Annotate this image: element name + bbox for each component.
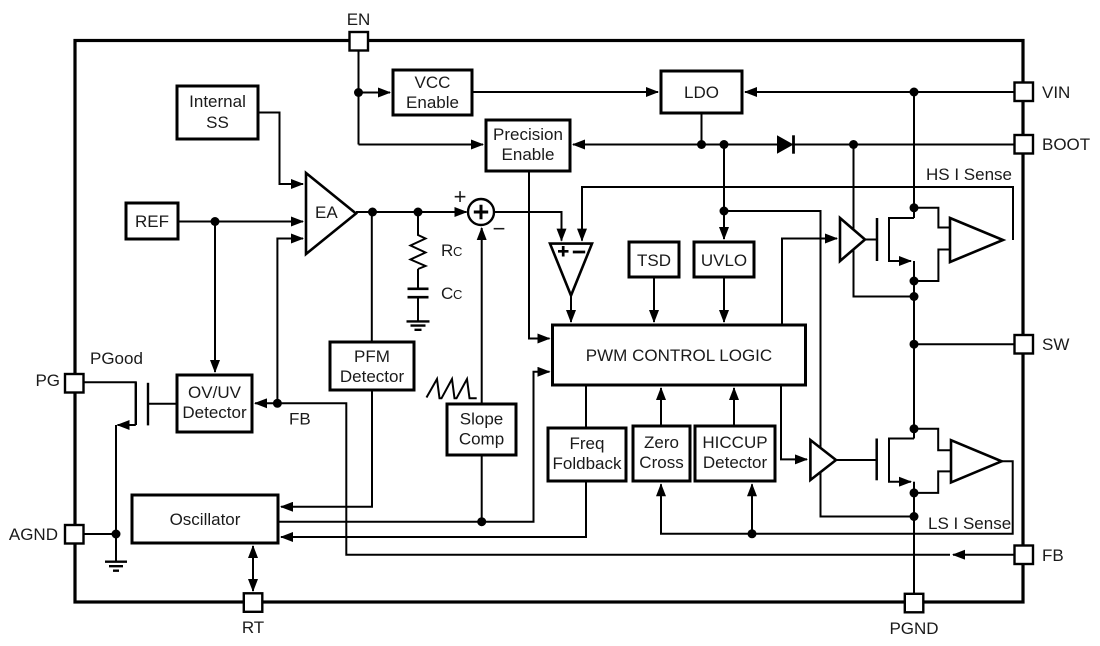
op-amp EA error amplifier	[306, 173, 356, 254]
svg-text:VIN: VIN	[1042, 83, 1070, 102]
wire HS I Sense feedback to PWM comparator minus input	[582, 187, 1013, 241]
wire PWM control logic to low-side gate driver	[781, 385, 807, 459]
block Freq Foldback	[548, 428, 626, 481]
PGood transistor gate bar	[147, 383, 149, 426]
pin EN	[347, 10, 371, 51]
pin RT	[242, 593, 264, 637]
svg-text:Zero: Zero	[644, 433, 679, 452]
wire VIN rail down the power path	[913, 92, 915, 218]
wire EN vertical from EN pin	[358, 41, 360, 145]
wire PFM Detector to oscillator	[281, 390, 372, 507]
svg-text:HS I Sense: HS I Sense	[926, 165, 1012, 184]
IC boundary	[75, 41, 1023, 603]
wire PWM control logic to Freq Foldback	[585, 385, 587, 428]
wire REF branch down to OV/UV Detector	[214, 222, 216, 373]
wire TSD to PWM control logic	[653, 277, 655, 322]
transistor LS MOSFET gate bar	[875, 439, 878, 481]
wire HS sense amp plus lead	[914, 208, 950, 228]
svg-text:Cross: Cross	[639, 453, 683, 472]
svg-text:Detector: Detector	[703, 453, 768, 472]
svg-text:PWM CONTROL LOGIC: PWM CONTROL LOGIC	[586, 346, 772, 365]
svg-text:OV/UV: OV/UV	[188, 383, 242, 402]
svg-text:Comp: Comp	[459, 430, 504, 449]
wire REF to EA input	[178, 221, 303, 223]
wire LS sense amp minus lead	[914, 471, 951, 493]
block PFM Detector	[330, 342, 414, 390]
wire EA output down to PFM Detector	[371, 212, 373, 342]
wire LS sense amp plus lead	[914, 429, 951, 450]
wire FB pin to FB net arrow	[953, 554, 1014, 556]
block Internal SS	[177, 86, 258, 139]
junction BOOT line join at SW node	[910, 292, 919, 301]
wire slope comp bottom to oscillator rail	[481, 455, 483, 522]
svg-text:Internal: Internal	[189, 92, 246, 111]
junction AGND	[112, 530, 121, 539]
wire PGood transistor source down to AGND	[115, 425, 117, 534]
junction FB at OV/UV	[273, 399, 282, 408]
junction LS source sense node	[910, 488, 919, 497]
svg-text:VCC: VCC	[415, 73, 451, 92]
wire HS gate lead	[865, 239, 877, 241]
wire VCC branch to low-side driver rail	[724, 211, 914, 517]
wire UVLO to PWM control logic	[723, 277, 725, 322]
wire EN to VCC Enable	[359, 92, 391, 94]
wire FB net to OV/UV Detector	[255, 403, 950, 554]
svg-text:Detector: Detector	[340, 367, 405, 386]
wire Freq Foldback to oscillator	[281, 481, 586, 537]
wire VCC Enable to LDO	[472, 91, 658, 93]
pin AGND	[9, 525, 84, 544]
wire LS I Sense branch to HICCUP Detector	[751, 484, 753, 534]
block Precision Enable	[486, 120, 570, 171]
svg-text:AGND: AGND	[9, 525, 58, 544]
svg-text:C: C	[453, 287, 462, 302]
svg-text:+: +	[454, 184, 467, 209]
svg-text:REF: REF	[135, 212, 169, 231]
wire compensation branch down to Rc	[417, 212, 419, 232]
wire BOOT rail to Precision Enable	[573, 144, 1014, 146]
wire HICCUP Detector to PWM control logic	[733, 388, 735, 426]
wire BOOT rail down to high-side source node	[854, 145, 915, 297]
block UVLO	[694, 242, 754, 277]
label CC	[441, 284, 462, 303]
wire Precision Enable output to PWM control logic	[529, 171, 550, 339]
wire AGND pin to ground	[83, 534, 116, 562]
svg-text:Precision: Precision	[493, 125, 563, 144]
wire PGood transistor source arrow	[118, 424, 136, 426]
wire oscillator output to PWM control logic	[278, 372, 550, 522]
pin PGND	[889, 594, 938, 638]
buffer low-side gate driver	[810, 440, 836, 480]
wire oscillator to RT pin bidirectional	[252, 546, 254, 591]
svg-text:PG: PG	[35, 371, 60, 390]
PGood transistor channel	[135, 382, 137, 425]
svg-text:−: −	[493, 216, 506, 241]
transistor HS MOSFET gate bar	[876, 218, 879, 261]
junction REF branch	[211, 217, 220, 226]
block OV/UV Detector	[177, 375, 252, 432]
svg-text:PFM: PFM	[354, 347, 390, 366]
junction VIN rail	[910, 88, 919, 97]
block Oscillator	[132, 495, 278, 543]
junction HS drain node	[910, 203, 919, 212]
sawtooth waveform above Slope Comp	[427, 379, 477, 398]
wire SW node to SW pin	[914, 343, 1015, 345]
wire PG pin to PGood transistor drain	[83, 382, 136, 425]
junction UVLO branch on BOOT rail	[720, 140, 729, 149]
op-amp HS current sense amplifier	[950, 218, 1003, 262]
svg-text:Oscillator: Oscillator	[170, 510, 241, 529]
svg-text:EN: EN	[347, 10, 371, 29]
junction LS rail join	[910, 512, 919, 521]
wire slope comp output up to summing node minus input	[481, 228, 483, 404]
svg-text:UVLO: UVLO	[701, 251, 747, 270]
capacitor CC plates	[408, 289, 429, 297]
buffer high-side gate driver	[840, 218, 865, 261]
diode on BOOT rail	[777, 135, 794, 153]
svg-text:RT: RT	[242, 618, 264, 637]
wire OV/UV Detector to PGood gate	[148, 403, 177, 405]
junction VCC to LS rail branch	[720, 207, 729, 216]
wire Zero Cross to PWM control logic	[660, 388, 662, 426]
wire LS I Sense output to Zero Cross	[661, 461, 1013, 534]
svg-text:Freq: Freq	[570, 434, 605, 453]
wire PWM comparator output to PWM control logic	[570, 296, 572, 323]
wire Rc to Cc	[417, 269, 419, 289]
pin VIN	[1015, 83, 1071, 103]
wire VIN to LDO	[745, 91, 1014, 93]
junction LS drain node	[910, 424, 919, 433]
svg-text:PGND: PGND	[889, 619, 938, 638]
resistor RC zigzag	[411, 232, 426, 269]
block VCC Enable	[393, 70, 472, 115]
junction LDO to BOOT rail	[697, 140, 706, 149]
svg-text:TSD: TSD	[637, 251, 671, 270]
pin SW	[1015, 335, 1070, 354]
svg-text:Enable: Enable	[502, 145, 555, 164]
wire FB branch up to EA inverting input	[277, 239, 303, 404]
wire power path HS source to LS drain	[913, 261, 915, 439]
junction LS I Sense to HICCUP branch	[748, 529, 757, 538]
svg-text:Foldback: Foldback	[553, 454, 622, 473]
block Zero Cross	[633, 426, 690, 481]
block LDO	[661, 71, 742, 113]
wire low-side MOSFET channel jog	[889, 439, 914, 482]
svg-text:HICCUP: HICCUP	[702, 433, 767, 452]
svg-text:FB: FB	[1042, 546, 1064, 565]
ground symbol below Cc	[407, 321, 430, 329]
junction EA output	[368, 208, 377, 217]
svg-text:PGood: PGood	[90, 349, 143, 368]
op-amp PWM comparator	[550, 244, 592, 296]
wire BOOT rail down to UVLO	[723, 145, 725, 240]
block Slope Comp	[447, 404, 516, 455]
wire Cc to ground	[417, 297, 419, 320]
wire EA output to summing node	[356, 211, 467, 213]
summing node	[468, 199, 494, 225]
svg-text:Slope: Slope	[460, 410, 503, 429]
block REF	[126, 203, 178, 239]
pin PG	[35, 371, 83, 393]
wire LDO output down to BOOT rail	[701, 113, 703, 145]
block PWM CONTROL LOGIC	[553, 325, 806, 385]
wire LS gate lead	[836, 459, 877, 461]
block HICCUP Detector	[695, 426, 775, 481]
junction SW node	[910, 340, 919, 349]
wire high-side MOSFET channel jog	[889, 218, 914, 261]
wire HS sense amp minus lead	[914, 250, 950, 282]
junction HS source sense node	[910, 277, 919, 286]
ground symbol AGND	[105, 562, 127, 571]
block TSD	[629, 242, 679, 277]
svg-text:C: C	[453, 244, 462, 259]
svg-text:Detector: Detector	[182, 403, 247, 422]
wire summing node output to PWM comparator plus input	[494, 212, 562, 241]
svg-text:LDO: LDO	[684, 83, 719, 102]
svg-text:FB: FB	[289, 410, 311, 429]
junction BOOT rail to HS driver	[849, 140, 858, 149]
svg-text:SW: SW	[1042, 335, 1069, 354]
junction slope comp tap	[477, 517, 486, 526]
junction EN to VCC Enable	[354, 88, 363, 97]
svg-text:LS I Sense: LS I Sense	[928, 514, 1011, 533]
wire power path LS source to PGND	[913, 482, 915, 594]
svg-text:SS: SS	[206, 113, 229, 132]
label RC	[441, 241, 462, 260]
junction compensation branch	[414, 208, 423, 217]
svg-text:Enable: Enable	[406, 93, 459, 112]
wire EN to Precision Enable	[359, 144, 484, 146]
svg-text:EA: EA	[315, 203, 338, 222]
op-amp LS current sense amplifier	[951, 440, 1002, 482]
svg-text:C: C	[441, 284, 453, 303]
svg-text:R: R	[441, 241, 453, 260]
pin BOOT	[1015, 135, 1091, 154]
svg-text:BOOT: BOOT	[1042, 135, 1090, 154]
wire Internal SS to EA non-inverting input	[258, 113, 303, 185]
pin FB	[1015, 546, 1064, 566]
wire PWM control logic to high-side gate driver	[782, 239, 837, 326]
